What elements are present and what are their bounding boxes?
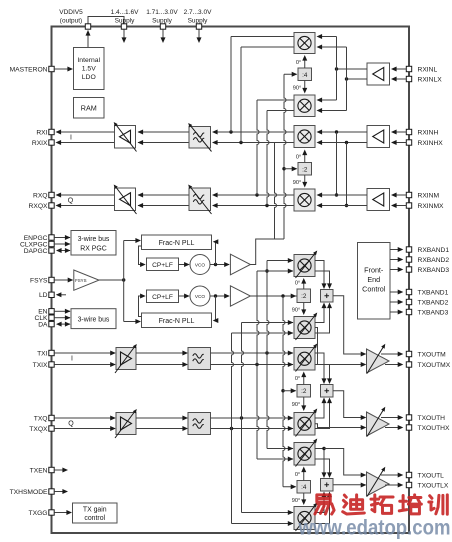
wire ENPGC to bus <box>54 237 70 239</box>
wire TX Q- bus vertical <box>242 323 244 419</box>
wire RXQX from PGC amp <box>57 205 115 207</box>
divider :2 (M) <box>297 289 311 303</box>
pin RXQ <box>49 192 54 197</box>
wire RXINH to LNA <box>392 131 406 133</box>
svg-text:CP+LF: CP+LF <box>152 262 173 269</box>
wire FSYS to PLL1 and PLL2 <box>123 241 125 322</box>
pin EN <box>49 309 54 314</box>
wire TX Q+ bus vertical <box>232 333 234 429</box>
pin TXQ <box>49 415 54 420</box>
svg-text:LD: LD <box>39 292 48 299</box>
block 3-wire bus RX PGC <box>71 231 116 256</box>
svg-text:TXQ: TXQ <box>34 415 48 422</box>
wire TX Q filter to mixers <box>211 417 294 419</box>
svg-text:TXIX: TXIX <box>33 362 48 369</box>
wire divider down to Q mixer (M) <box>303 303 305 311</box>
pin 1.71-3.0V supply <box>160 24 165 29</box>
wire TXBAND1 <box>390 291 401 293</box>
svg-text:90°: 90° <box>292 498 300 504</box>
wire LO tap vertical <box>275 143 277 240</box>
pin DA <box>49 321 54 326</box>
wires mixer M Q to summer <box>315 304 324 323</box>
svg-text:RXINHX: RXINHX <box>418 140 444 147</box>
mixer RX4 (H/M-band Q) <box>294 189 315 211</box>
wire CP+LF2 to VCO2 <box>179 295 189 297</box>
wire divider up to I mixer (H) <box>303 377 305 385</box>
pin LD <box>49 292 54 297</box>
svg-text:0°: 0° <box>295 281 300 287</box>
filter TX Q lowpass <box>188 413 211 435</box>
watermark red chinese character xun <box>429 495 447 514</box>
pin RXINMX <box>406 203 411 208</box>
block TX gain control <box>73 503 118 523</box>
svg-text:RXINH: RXINH <box>418 129 439 136</box>
wires mixer H Q to summer <box>315 399 324 419</box>
svg-text:0°: 0° <box>295 376 300 382</box>
svg-text:FSYS: FSYS <box>75 278 87 283</box>
svg-text:90°: 90° <box>293 86 301 92</box>
wire VCO1 to RX LO buffer <box>210 264 229 266</box>
amp TXOUTM driver <box>367 349 390 373</box>
svg-text:Frac-N PLL: Frac-N PLL <box>159 240 195 247</box>
divider :4 (L) <box>297 481 311 494</box>
svg-text:LDO: LDO <box>82 74 96 81</box>
svg-text::2: :2 <box>302 167 308 174</box>
svg-text:TXI: TXI <box>37 350 48 357</box>
vco RX <box>190 255 210 275</box>
wire PLL2 to CP+LF2 <box>139 296 145 317</box>
wire mixer M Q to TXOUTM amp <box>315 328 366 365</box>
block RAM <box>74 98 105 119</box>
wire TX I amp to filter <box>136 352 187 354</box>
svg-text:TXOUTHX: TXOUTHX <box>418 425 450 432</box>
amp TXOUTL driver <box>367 472 390 496</box>
svg-text:I: I <box>71 356 73 363</box>
pin 2.7-3.0V supply <box>196 24 201 29</box>
svg-text:(output): (output) <box>60 18 82 25</box>
wire LNA M to mixer RX4 <box>318 194 368 196</box>
wire LDO output to VDDIV5 pin <box>87 31 89 48</box>
wire :2 to mixer RX3 <box>304 155 306 163</box>
summer pair L <box>321 479 334 492</box>
svg-text:TXHSMODE: TXHSMODE <box>10 489 48 496</box>
svg-text:RXQX: RXQX <box>29 203 48 210</box>
wire TX Q amp to filter <box>136 417 187 419</box>
divider :2 (RX) <box>298 163 312 176</box>
svg-text:I: I <box>70 135 72 142</box>
svg-text:Frac-N PLL: Frac-N PLL <box>159 318 195 325</box>
svg-text:90°: 90° <box>292 402 300 408</box>
wire TXOUTH amp to pins <box>381 417 401 419</box>
wire RX LO distribution <box>250 239 284 265</box>
mixer TX L Q <box>294 507 315 530</box>
svg-text:FSYS: FSYS <box>30 277 48 284</box>
block CP+LF (TX) <box>147 290 179 303</box>
svg-text:TXBAND2: TXBAND2 <box>418 299 449 306</box>
pin TXOUTLX <box>406 482 411 487</box>
wire TXHSMODE stub <box>54 491 67 493</box>
svg-text:0°: 0° <box>295 472 300 478</box>
wire :2 to mixer RX4 <box>304 175 306 183</box>
wire RXQ from PGC amp <box>57 194 115 196</box>
svg-text:CP+LF: CP+LF <box>152 294 173 301</box>
svg-text:Internal: Internal <box>77 57 100 64</box>
wire supply arrow 3 <box>198 30 200 39</box>
watermark red chinese character di <box>343 495 365 514</box>
pin TXOUTMX <box>406 362 411 367</box>
svg-text:TXOUTMX: TXOUTMX <box>418 362 451 369</box>
pin RXINH <box>406 129 411 134</box>
pin TXBAND3 <box>406 309 411 314</box>
block 3-wire bus <box>71 309 116 329</box>
wire RXI from PGC amp <box>57 131 115 133</box>
wire TX LO distribution <box>250 295 296 297</box>
svg-text:DA: DA <box>38 321 48 328</box>
svg-text:90°: 90° <box>293 180 301 186</box>
wire EN to bus <box>54 310 70 312</box>
pin RXIX <box>49 140 54 145</box>
wire TXBAND3 <box>390 311 401 313</box>
wire FSYS buffer output <box>99 279 124 281</box>
wire CLXPGC to bus <box>54 243 70 245</box>
block Frac-N PLL (TX) <box>142 313 212 328</box>
pin TXQX <box>49 426 54 431</box>
svg-text:1.4...1.6V: 1.4...1.6V <box>111 9 139 16</box>
pin RXBAND2 <box>406 257 411 262</box>
wire mixer L I to TXOUTL amp <box>322 447 325 450</box>
wire CLK to bus <box>54 317 70 319</box>
wire divider up to I mixer (M) <box>303 283 305 289</box>
svg-text::4: :4 <box>301 484 307 491</box>
pin RXQX <box>49 203 54 208</box>
wire divider down to Q mixer (L) <box>303 493 305 500</box>
wire VCO1 feedback to PLL1 <box>214 242 216 265</box>
wire filter I to amp <box>138 131 189 133</box>
svg-text:RX PGC: RX PGC <box>80 246 106 253</box>
svg-text:0°: 0° <box>296 60 301 66</box>
pin CLK <box>49 315 54 320</box>
wire TXBAND2 <box>390 301 401 303</box>
wire summer L to TXOUTL amp <box>333 484 366 486</box>
pin TXI <box>49 350 54 355</box>
buffer RX LO <box>230 254 250 275</box>
lna RXINM <box>367 189 390 211</box>
amp TX I PGC <box>116 348 136 370</box>
svg-text::2: :2 <box>301 388 307 395</box>
pin DAPGC <box>49 248 54 253</box>
wire TX I- bus vertical <box>267 261 269 354</box>
wire FSYS to buffer <box>54 279 72 281</box>
svg-text:RAM: RAM <box>81 104 97 113</box>
pin RXINLX <box>406 76 411 81</box>
wire TX I+ bus vertical <box>257 271 259 365</box>
pin ENPGC <box>49 235 54 240</box>
pin TXBAND2 <box>406 299 411 304</box>
wire VDDIV5 loop to 1.4-1.6V supply <box>88 17 124 25</box>
mixer RX3 (H/M-band I) <box>294 126 315 148</box>
svg-text:End: End <box>367 275 380 284</box>
wire RXBAND1 <box>390 249 401 251</box>
pin TXBAND1 <box>406 289 411 294</box>
wire DAPGC to bus (bidirectional) <box>59 250 70 252</box>
svg-text::4: :4 <box>302 72 308 79</box>
svg-text:2.7...3.0V: 2.7...3.0V <box>184 9 212 16</box>
watermark red chinese character pei <box>399 495 421 514</box>
svg-text:RXINM: RXINM <box>418 192 440 199</box>
wire summer H to TXOUTH amp <box>333 391 366 418</box>
svg-text:RXBAND1: RXBAND1 <box>418 247 450 254</box>
pin RXINHX <box>406 140 411 145</box>
mixer TX L I <box>294 443 315 466</box>
svg-text:VCO: VCO <box>195 294 206 299</box>
pin TXOUTH <box>406 415 411 420</box>
watermark red chinese character tuo <box>371 495 393 513</box>
pin TXGG <box>49 510 54 515</box>
block Front-End Control <box>358 243 391 320</box>
svg-text:control: control <box>84 515 105 522</box>
svg-text:0°: 0° <box>296 155 301 161</box>
svg-text:1.5V: 1.5V <box>82 66 96 73</box>
svg-text:Q: Q <box>68 198 74 205</box>
svg-text:TXQX: TXQX <box>29 426 48 433</box>
svg-text:RXINLX: RXINLX <box>418 76 443 83</box>
wire PLL1 to CP+LF1 <box>139 246 145 265</box>
wire RXINM to LNA <box>392 194 406 196</box>
svg-text:RXIX: RXIX <box>32 140 48 147</box>
svg-text:VCO: VCO <box>195 262 206 267</box>
pin RXI <box>49 129 54 134</box>
svg-text:3-wire bus: 3-wire bus <box>78 236 110 243</box>
wire MASTERON to LDO <box>54 68 72 70</box>
buffer TX LO <box>230 286 250 306</box>
svg-text:TXOUTH: TXOUTH <box>418 415 446 422</box>
svg-text:Q: Q <box>68 421 74 428</box>
wire LNA H to mixer RX3 <box>318 131 368 133</box>
filter TX I lowpass <box>188 348 211 370</box>
wire VCO2 to TX LO buffer <box>210 295 229 297</box>
amp TX Q PGC <box>116 413 136 435</box>
wire filter Q to amp <box>138 194 189 196</box>
wire RXBAND3 <box>390 269 401 271</box>
pin RXBAND1 <box>406 247 411 252</box>
svg-text:MASTERON: MASTERON <box>10 66 48 73</box>
wire mixers to RX Q filter <box>213 194 294 196</box>
mixer RX2 (L-band Q) <box>294 95 315 117</box>
lna RXINH <box>367 126 390 148</box>
svg-text:90°: 90° <box>292 308 300 314</box>
svg-text:RXINMX: RXINMX <box>418 203 445 210</box>
svg-text:TX gain: TX gain <box>83 507 107 514</box>
svg-text:Front-: Front- <box>364 266 384 275</box>
vco TX <box>190 286 210 306</box>
mixer TX M I <box>294 255 315 277</box>
summer pair M <box>321 290 334 303</box>
lna RXINL <box>367 63 390 85</box>
wire divider down to Q mixer (H) <box>303 397 305 406</box>
filter RX I lowpass <box>189 127 211 149</box>
mixer TX H Q <box>294 413 315 436</box>
svg-text:RXINL: RXINL <box>418 66 438 73</box>
amp RX Q PGC <box>115 188 136 211</box>
amp RX I PGC <box>115 126 136 149</box>
svg-text:RXBAND3: RXBAND3 <box>418 267 450 274</box>
svg-text:RXBAND2: RXBAND2 <box>418 257 450 264</box>
wire TXEN stub <box>54 469 67 471</box>
wire RX mixer1 I output down to I rows <box>231 36 294 38</box>
divider :4 <box>298 68 312 81</box>
pin FSYS <box>49 277 54 282</box>
pin CLXPGC <box>49 241 54 246</box>
wire CP+LF1 to VCO1 <box>179 264 189 266</box>
pin TXOUTM <box>406 351 411 356</box>
wire L verticals to mixers RX1/RX2 <box>336 37 338 101</box>
mixer TX M Q <box>294 317 315 339</box>
pin TXOUTHX <box>406 425 411 430</box>
wires mixer M I to summer <box>315 261 324 289</box>
wire supply arrow 2 <box>162 30 164 39</box>
mixer TX H I <box>294 348 315 371</box>
wire DA to bus (bidirectional) <box>59 323 70 325</box>
buffer FSYS <box>74 270 99 290</box>
wire mixer H Q to TXOUTH amp <box>315 424 366 428</box>
wires mixer L Q to summer <box>315 493 324 513</box>
block CP+LF (RX) <box>147 258 179 271</box>
svg-text:DAPGC: DAPGC <box>24 248 48 255</box>
wire VCO2 feedback to PLL2 <box>214 296 216 321</box>
wire RXBAND2 <box>390 259 401 261</box>
pin VDDIV5 <box>85 24 90 29</box>
block Frac-N PLL (RX) <box>142 235 212 250</box>
wire mixers to RX I filter <box>213 131 294 133</box>
pin TXEN <box>49 467 54 472</box>
watermark red chinese character yi <box>315 495 334 514</box>
svg-text:TXBAND1: TXBAND1 <box>418 289 449 296</box>
chip outline <box>52 27 410 534</box>
svg-text:TXGG: TXGG <box>29 510 48 517</box>
pin 1.4-1.6V supply <box>121 24 126 29</box>
wire :4 to mixer RX1 <box>304 60 306 68</box>
wire TXOUTL amp to pins <box>381 474 401 476</box>
wire TXOUTM amp to pins <box>381 353 401 355</box>
svg-text:1.71...3.0V: 1.71...3.0V <box>146 9 178 16</box>
svg-text:TXEN: TXEN <box>30 467 48 474</box>
svg-text::2: :2 <box>301 293 307 300</box>
pin RXINM <box>406 192 411 197</box>
wires mixer H I to summer <box>315 353 324 383</box>
pin RXINL <box>406 66 411 71</box>
wire divider up to I mixer (L) <box>303 472 305 481</box>
wire RX mixer2 Q output down to Q rows <box>257 99 294 101</box>
wire supply arrow 1 <box>123 30 125 39</box>
svg-text:3-wire bus: 3-wire bus <box>78 317 110 324</box>
wire TXGG to TX gain control <box>54 512 71 514</box>
filter RX Q lowpass <box>189 188 211 211</box>
svg-text:TXBAND3: TXBAND3 <box>418 309 449 316</box>
divider :2 (H) <box>297 385 311 398</box>
wire summer M to TXOUTM amp <box>333 296 366 354</box>
wire H/M band bridge verticals <box>336 132 338 195</box>
svg-text:RXI: RXI <box>36 129 47 136</box>
wire TXQ to amp <box>54 417 115 419</box>
wires mixer L I to summer <box>315 449 324 478</box>
svg-text:VDDIV5: VDDIV5 <box>59 9 83 16</box>
pin TXHSMODE <box>49 489 54 494</box>
mixer RX1 (L-band I) <box>294 33 315 54</box>
pin TXIX <box>49 362 54 367</box>
pin MASTERON <box>49 66 54 71</box>
wire LD stub <box>57 294 66 296</box>
wire LNA L outputs to verticals <box>337 68 368 70</box>
wire TX I filter to mixers <box>211 352 294 354</box>
svg-text:TXOUTM: TXOUTM <box>418 351 447 358</box>
block Internal 1.5V LDO <box>74 48 105 90</box>
pin TXOUTL <box>406 472 411 477</box>
svg-text:www.edatop.com: www.edatop.com <box>298 517 451 540</box>
svg-text:RXQ: RXQ <box>33 192 48 199</box>
wire TXI to amp <box>54 352 115 354</box>
svg-text:Control: Control <box>362 285 386 294</box>
amp TXOUTH driver <box>367 412 390 436</box>
svg-text:TXOUTL: TXOUTL <box>418 472 445 479</box>
pin RXBAND3 <box>406 267 411 272</box>
wire :4 to mixer RX2 <box>304 81 306 89</box>
wire RXIX from PGC amp <box>57 142 115 144</box>
svg-text:TXOUTLX: TXOUTLX <box>418 482 449 489</box>
summer pair H <box>321 385 334 398</box>
wire RXINL to LNA <box>392 68 406 70</box>
